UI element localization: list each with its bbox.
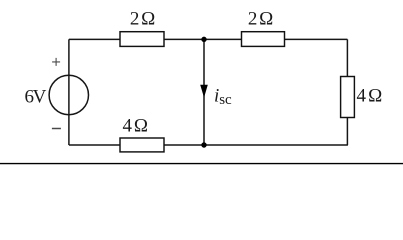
wire right branch	[346, 39, 348, 145]
resistor 2ohm R1 body	[120, 32, 164, 47]
label 4ohm on R3	[123, 116, 148, 137]
svg-text:4: 4	[356, 86, 366, 107]
node junction dot top	[201, 37, 206, 42]
label 6V on source	[24, 87, 46, 108]
current arrowhead i_sc	[200, 85, 208, 98]
svg-text:2: 2	[248, 9, 258, 30]
bottom page rule	[0, 163, 403, 165]
wire bottom rail	[69, 144, 348, 146]
wire center branch (i_sc)	[203, 39, 205, 145]
resistor 4ohm R4 body (right, vertical)	[341, 77, 355, 118]
wire left branch (through source)	[68, 39, 70, 145]
label 2ohm on R1	[130, 9, 155, 30]
voltage source V1 circle	[49, 75, 88, 114]
label 2ohm on R2	[248, 9, 273, 30]
svg-text:Ω: Ω	[141, 9, 155, 30]
svg-text:Ω: Ω	[368, 86, 382, 107]
svg-text:4: 4	[123, 116, 133, 137]
label i_sc current name	[214, 86, 232, 108]
wire top rail	[69, 38, 348, 40]
svg-text:sc: sc	[219, 92, 232, 108]
minus sign of source	[52, 128, 61, 130]
resistor 2ohm R2 body	[242, 32, 285, 47]
resistor 4ohm R3 body (bottom)	[120, 138, 164, 152]
label 4ohm on R4	[356, 86, 382, 107]
svg-text:V: V	[33, 87, 47, 108]
node junction dot bottom	[201, 142, 206, 147]
svg-text:2: 2	[130, 9, 140, 30]
svg-text:Ω: Ω	[259, 9, 273, 30]
plus sign of source	[52, 58, 60, 66]
svg-text:Ω: Ω	[134, 116, 148, 137]
